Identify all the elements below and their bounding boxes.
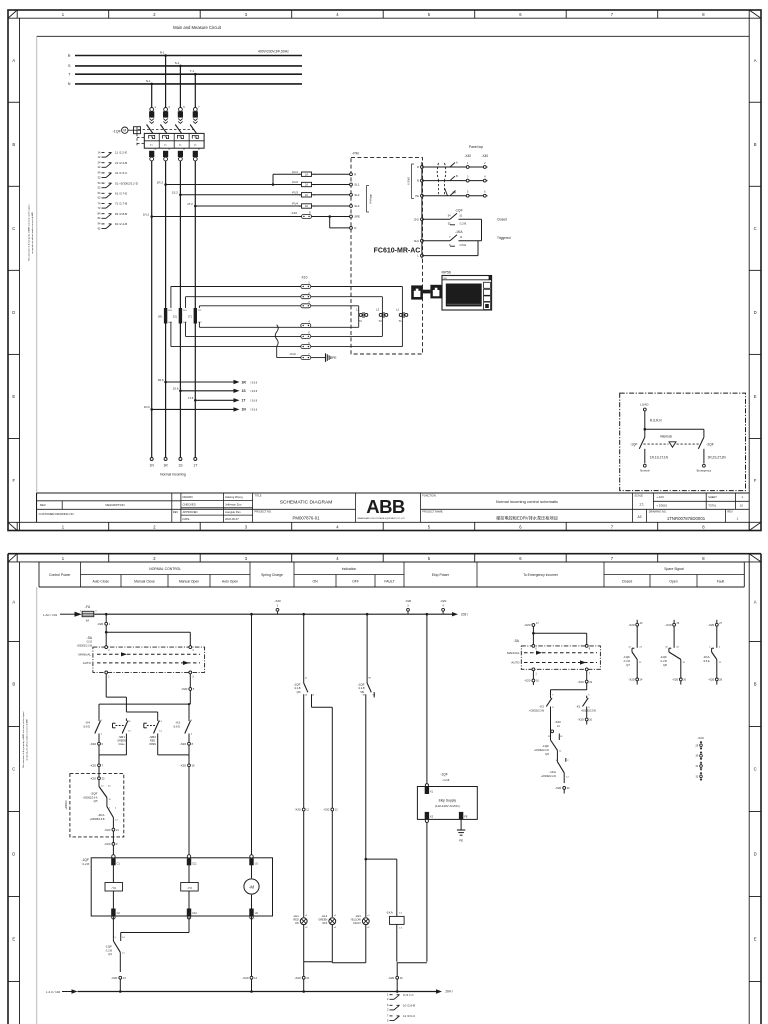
title block title cell (253, 493, 356, 522)
terminal -X20:12 (323, 808, 338, 812)
svg-text:-K2: -K2 (539, 705, 544, 709)
svg-text:MP56: MP56 (442, 270, 451, 274)
wire HL1 column (303, 700, 305, 917)
svg-text:-X20: -X20 (104, 828, 111, 832)
relay contact -K1 (576, 694, 597, 712)
svg-text:Triggered: Triggered (497, 236, 511, 240)
header label Auto Open (222, 579, 238, 583)
svg-text:/1.2-B: /1.2-B (460, 222, 467, 225)
svg-text:-1KA: -1KA (549, 770, 557, 774)
-PM terminal R (350, 172, 357, 176)
svg-text:T3: T3 (358, 319, 362, 323)
header label Ekip Power (432, 573, 450, 577)
svg-text:Normal: Normal (640, 469, 650, 473)
svg-text:ON: ON (312, 579, 318, 583)
svg-text:400V/230V,3Φ,50Hz: 400V/230V,3Φ,50Hz (258, 49, 289, 53)
svg-text:1T.6: 1T.6 (188, 396, 194, 400)
svg-text:FC610-MR-AC: FC610-MR-AC (374, 248, 421, 255)
selector switch -SA (77, 636, 205, 679)
label R,S,R,N (650, 419, 662, 423)
svg-text:DATE: DATE (183, 517, 190, 521)
bus S (68, 64, 302, 68)
display connector plug 2 (430, 285, 441, 299)
terminal -X20:15 (294, 962, 309, 993)
svg-text:/1.2-B: /1.2-B (106, 949, 113, 952)
svg-text:/ 3.6.6: / 3.6.6 (250, 399, 258, 403)
LOAD terminal (640, 403, 649, 430)
breaker -1QF pole blades (147, 125, 197, 134)
svg-text:+ A2X: + A2X (656, 495, 664, 499)
svg-text:AUTO: AUTO (83, 661, 92, 665)
svg-text:Fault: Fault (717, 579, 725, 583)
svg-text:-1QF: -1QF (542, 744, 549, 748)
svg-text:D: D (12, 310, 15, 315)
svg-text:-K1: -K1 (576, 705, 581, 709)
page 2 inner margin line (36, 587, 38, 1024)
terminal -X20:1 (97, 614, 111, 626)
breaker aux changeover -1QF (emergency) (534, 731, 563, 756)
fuse -FU4 (292, 202, 316, 209)
svg-text:-SA: -SA (514, 639, 520, 643)
breaker aux changeover -1QF Q/9 (293, 614, 332, 712)
node 1N.6 (144, 405, 153, 411)
svg-text:-X20: -X20 (708, 623, 715, 627)
breaker -1QF upper plug contact pole 3 (178, 105, 185, 123)
svg-text:1N: 1N (150, 464, 155, 468)
terminal -X20:11 (294, 808, 309, 812)
svg-text:1N.2: 1N.2 (143, 212, 150, 216)
svg-text:-1QF: -1QF (623, 655, 630, 659)
node 1T.2 (187, 202, 196, 208)
svg-text:-PM: -PM (352, 152, 359, 156)
svg-text:Ekip Power: Ekip Power (432, 573, 450, 577)
-1QF box top pin C1 (111, 855, 120, 866)
svg-text:51 +D3002/2.2-D: 51 +D3002/2.2-D (115, 181, 139, 185)
wire branch to -FU1 (272, 174, 351, 186)
-1QF closed-signal contact (422, 208, 507, 240)
label Normal Incoming (160, 473, 186, 477)
svg-text:Auto Open: Auto Open (222, 579, 238, 583)
bus label 400V/230V,3P,50Hz (258, 49, 289, 53)
header label Spare Signal (664, 567, 684, 571)
svg-text:1R: 1R (242, 380, 247, 384)
svg-text:C: C (12, 226, 15, 231)
header label Fault (717, 579, 725, 583)
wire branch K2/K1 (551, 690, 587, 696)
svg-text:Main and Measure Circuit: Main and Measure Circuit (173, 25, 222, 30)
svg-text:-1KA: -1KA (703, 655, 711, 659)
spare contact -1QF Q/7 (closed) (623, 620, 643, 685)
terminal -X20:7 (90, 755, 104, 774)
-PM terminal R (417, 165, 423, 169)
breaker operating unit -1QF box (81, 858, 272, 916)
outgoing terminal 1N (150, 458, 155, 468)
node bus S51 (366, 613, 369, 616)
svg-text:MANUAL: MANUAL (78, 652, 91, 656)
svg-text:Q/1: Q/1 (108, 953, 113, 956)
svg-text:/1.2-B: /1.2-B (358, 687, 365, 690)
title block sheet cell (706, 493, 749, 509)
arrow 204 (436, 989, 453, 993)
svg-text:-FU2: -FU2 (292, 180, 299, 184)
title underline (37, 35, 749, 37)
svg-text:Normal Incoming: Normal Incoming (160, 473, 186, 477)
svg-text:Auto Close: Auto Close (92, 579, 109, 583)
svg-text:+D3002/2.6-A: +D3002/2.6-A (83, 796, 98, 799)
header label FAULT (384, 579, 394, 583)
svg-text:+D3002/2.5-B: +D3002/2.5-B (581, 709, 596, 712)
-PM CT input L2/T2 (376, 308, 388, 323)
-PM terminal B (417, 179, 423, 183)
title block outline (37, 493, 750, 522)
svg-text:C12: C12 (192, 912, 197, 915)
page 2 border frame with grid references (8, 554, 761, 1024)
svg-text:Closed: Closed (622, 579, 633, 583)
svg-text:Panel top: Panel top (469, 145, 483, 149)
svg-text:81 /2.8-B: 81 /2.8-B (115, 212, 127, 216)
indicator lamp -HL1 (red, ON) (293, 914, 308, 929)
svg-text:CH2: CH2 (414, 217, 420, 221)
svg-text:LOAD: LOAD (640, 403, 649, 407)
wire/arrow 1S (180, 389, 257, 394)
display connector plug 1 (411, 285, 423, 299)
svg-text:CHECKED: CHECKED (183, 502, 196, 506)
title block function cell (421, 493, 559, 522)
svg-text:-K3: -K3 (175, 720, 180, 724)
svg-text:To Emergency incomer: To Emergency incomer (523, 573, 559, 577)
terminal -X10:8 (291, 211, 312, 219)
svg-text:1N: 1N (242, 408, 247, 412)
outgoing terminal 1S (178, 458, 183, 468)
svg-text:T1: T1 (398, 319, 402, 323)
wire 1S down to CT (179, 195, 181, 459)
svg-text:R,S,R,N: R,S,R,N (650, 419, 662, 423)
twisted-wire mark (275, 325, 278, 347)
-PM CT input L1/T1 (396, 308, 408, 323)
+D3002 interlock box (dashed) (64, 774, 124, 837)
svg-text:REV: REV (173, 511, 178, 514)
fuse -FU1 (292, 170, 316, 177)
-1QF auxiliary contact 51 cross-reference (98, 181, 139, 190)
svg-text:-1QF: -1QF (81, 858, 89, 862)
breaker -1QF upper plug contact pole 1 (149, 105, 156, 123)
terminal -X20:14 (242, 976, 257, 993)
HMI display MP56 (442, 270, 492, 310)
node N.1 (146, 79, 153, 85)
wire to S51 contact (0, 0, 1, 1)
lamp collector wires (304, 925, 427, 963)
svg-text:-HL1: -HL1 (293, 914, 299, 918)
svg-text:T-1: T-1 (190, 69, 195, 73)
wire to Q9 contact (0, 0, 1, 1)
svg-text:-1QF: -1QF (112, 129, 121, 133)
svg-text:F: F (12, 478, 15, 483)
svg-text:-X10: -X10 (301, 275, 308, 279)
svg-text:This document is the property: This document is the property of ABB and… (28, 204, 31, 261)
spring charge motor feed (250, 613, 253, 858)
svg-text:-2QF: -2QF (706, 443, 714, 447)
spare contact -1KA (fault) (703, 620, 723, 685)
svg-text:-X20: -X20 (577, 680, 584, 684)
svg-text:X-SMS: X-SMS (408, 177, 411, 185)
svg-text:Q/8: Q/8 (663, 664, 668, 667)
svg-text:or reproduced without written: or reproduced without written consent of… (25, 719, 28, 761)
svg-text:Open: Open (669, 579, 677, 583)
contact B on B row (450, 175, 458, 181)
svg-text:B: B (417, 179, 419, 183)
manual feed wire (106, 674, 158, 719)
wire/arrow 1R (166, 380, 258, 385)
opening coil -YO (181, 865, 199, 909)
node bus ekip (426, 613, 429, 616)
header label Indication (342, 567, 357, 571)
terminal -X20:18 (180, 755, 195, 858)
svg-text:A3: A3 (638, 515, 642, 519)
terminal -X20:19 (577, 671, 592, 690)
-1QF box bottom pin U2 (249, 909, 258, 920)
push button -SB1 (green close) (113, 718, 132, 746)
svg-text:REV: REV (40, 503, 46, 507)
svg-text:/3.6-D: /3.6-D (83, 726, 90, 729)
terminal -X10:7 (289, 352, 311, 360)
arrow 203 (452, 612, 468, 616)
-PM terminal CH2 (414, 217, 424, 221)
svg-text:-X20: -X20 (708, 678, 715, 682)
svg-text:Ekip Supply: Ekip Supply (439, 799, 457, 803)
-1QF auxiliary contact 71 cross-reference (98, 201, 128, 210)
svg-text:-SA: -SA (87, 636, 93, 640)
svg-text:/3.10: /3.10 (86, 641, 92, 644)
bus R (68, 54, 302, 58)
svg-text:Spare Signal: Spare Signal (664, 567, 684, 571)
-1QF auxiliary contact 31 cross-reference (98, 171, 129, 180)
svg-text:2S1: 2S1 (173, 316, 178, 319)
svg-text:-X20: -X20 (665, 623, 672, 627)
svg-text:S-1: S-1 (175, 61, 180, 65)
svg-text:-X20: -X20 (274, 599, 281, 603)
svg-text:B: B (12, 142, 15, 147)
svg-text:D: D (12, 852, 15, 857)
svg-text:-X20: -X20 (697, 736, 704, 740)
breaker -1QF lower plug contact pole 2 (163, 147, 170, 161)
svg-text:1S.6: 1S.6 (173, 387, 179, 391)
wire branch to N terminal (328, 215, 351, 228)
auto feed wire (99, 703, 190, 718)
Normal terminal (640, 464, 650, 472)
wire 1N to -PM (152, 216, 351, 218)
title block rev/description table (37, 493, 750, 522)
svg-text:2A: 2A (305, 194, 308, 197)
-1QF auxiliary contact 81 cross-reference (98, 212, 128, 221)
svg-text:-1KA: -1KA (386, 911, 394, 915)
breaker -1QF main box (144, 133, 204, 148)
terminal -X10:3 (301, 300, 311, 308)
breaker -1QF lower plug contact pole 1 (149, 147, 156, 161)
relay contact -K2 (529, 694, 554, 712)
-PM terminal SPE (350, 215, 360, 219)
svg-text:-1QF: -1QF (630, 443, 638, 447)
svg-text:+D3008/2.6-B: +D3008/2.6-B (90, 818, 105, 821)
svg-text:-YC: -YC (111, 886, 117, 890)
svg-text:PE: PE (459, 838, 463, 842)
terminal -X20:8 (180, 736, 194, 755)
node S.1 (175, 61, 182, 67)
svg-text:A: A (12, 58, 15, 63)
svg-text:CH1: CH1 (414, 239, 420, 243)
contact A on R row (450, 162, 458, 168)
label 2R,2S,2T,2N (708, 456, 727, 460)
fuse -FU3 (292, 190, 316, 197)
svg-text:L3: L3 (356, 308, 360, 312)
wire pole S down (179, 161, 181, 195)
interlock contact -2QF (83, 784, 112, 805)
svg-text:APPROVED: APPROVED (183, 510, 198, 514)
svg-text:-K4: -K4 (85, 720, 90, 724)
svg-text:REV.: REV. (727, 510, 733, 514)
svg-text:-1QF: -1QF (357, 682, 364, 686)
svg-text:PE: PE (332, 356, 336, 360)
-PM terminal PE (415, 194, 423, 198)
Ekip power supply (417, 773, 477, 823)
svg-text:-X20: -X20 (90, 742, 97, 746)
svg-text:203 /: 203 / (461, 612, 468, 616)
-1QF box bottom pin C12 (187, 909, 198, 920)
switch -1QF (interlock) (630, 429, 645, 463)
svg-text:71 /2.7-B: 71 /2.7-B (115, 202, 127, 206)
X-SMS bracket (408, 164, 415, 199)
spring charge motor -M (244, 865, 259, 909)
page 2 function header table grid (39, 562, 744, 587)
svg-text:V-M sign: V-M sign (370, 194, 373, 204)
svg-text:YELLOW: YELLOW (350, 919, 361, 922)
ground PE (311, 353, 337, 362)
svg-text:+ D3001: + D3001 (656, 503, 667, 507)
wire L return (422, 241, 478, 256)
svg-text:+D3002/2.2-D: +D3002/2.2-D (534, 749, 549, 752)
-PM right side rail (421, 162, 423, 259)
svg-text:9 /3.7-C: 9 /3.7-C (403, 993, 415, 997)
svg-text:-X20: -X20 (628, 678, 635, 682)
svg-text:FAULT: FAULT (353, 922, 361, 925)
svg-text:-X40: -X40 (481, 154, 488, 158)
svg-text:ABB: ABB (366, 496, 405, 517)
wire K2 down (426, 823, 428, 962)
terminal -X20:16 (388, 924, 403, 992)
svg-text:L.2.0 / 102: L.2.0 / 102 (46, 990, 61, 994)
-PM terminal N (350, 226, 357, 230)
wire S drop (179, 66, 181, 108)
terminal strip -X40 labels (464, 154, 488, 158)
breaker trip linkage (dashed) (137, 130, 194, 146)
svg-text:Manual Open: Manual Open (179, 579, 199, 583)
svg-text:Manual Close: Manual Close (134, 579, 155, 583)
bus N (68, 82, 302, 86)
-PM terminal SL1 (350, 183, 360, 187)
interlock dashed tie (644, 434, 702, 447)
svg-text:Normal incoming control schema: Normal incoming control schematic (496, 499, 558, 504)
control bus L (94, 613, 452, 615)
interlock node (644, 428, 704, 437)
svg-text:91 /2.4-B: 91 /2.4-B (115, 222, 127, 226)
svg-text:1TNR007876D0001: 1TNR007876D0001 (667, 516, 706, 521)
svg-text:-X20: -X20 (524, 623, 531, 627)
svg-text:L.AC / 101: L.AC / 101 (43, 613, 58, 617)
node 1T.6 (188, 396, 197, 402)
svg-text:-1QF: -1QF (660, 655, 667, 659)
svg-text:-1QF: -1QF (440, 773, 448, 777)
svg-text:(110-240V AC/DC): (110-240V AC/DC) (435, 804, 460, 808)
svg-text:10: 10 (740, 503, 744, 507)
svg-text:-X20: -X20 (577, 718, 584, 722)
svg-text:2R,2S,2T,2N: 2R,2S,2T,2N (708, 456, 727, 460)
svg-text:+D3002/2.2-D: +D3002/2.2-D (541, 775, 556, 778)
svg-text:OFF: OFF (352, 579, 359, 583)
node T.1 (190, 69, 197, 75)
svg-text:SHEET: SHEET (708, 495, 717, 499)
svg-text:FUNCTION: FUNCTION (422, 494, 436, 498)
svg-text:1N.6: 1N.6 (144, 405, 150, 409)
node 1N.2 (143, 212, 153, 218)
svg-text:-FU4: -FU4 (292, 202, 299, 206)
svg-text:This document is the property: This document is the property of ABB and… (22, 711, 25, 768)
header label NORMAL CONTROL (149, 567, 181, 571)
svg-text:-HL2: -HL2 (321, 914, 327, 918)
node bus2 13 (119, 990, 122, 993)
wire -X20:1 to -SA (105, 625, 190, 646)
-PM terminal CH1 (414, 239, 424, 243)
svg-text:-X20: -X20 (672, 678, 679, 682)
svg-text:Emergency: Emergency (697, 469, 712, 473)
current transformer CT1 (R) (158, 308, 173, 324)
svg-text:SL2: SL2 (354, 193, 360, 197)
terminal -X20:16 (emergency) (524, 671, 539, 685)
-1QF box top pin C11 (187, 855, 197, 866)
terminal block -X10 label (301, 275, 308, 279)
svg-text:Spring Charge: Spring Charge (261, 573, 283, 577)
svg-text:204 /: 204 / (446, 990, 453, 994)
svg-text:-X20: -X20 (294, 976, 301, 980)
trip relay coil -1KA (386, 911, 404, 962)
svg-text:-X20: -X20 (323, 808, 330, 812)
svg-text:AUTO: AUTO (511, 661, 520, 665)
terminal -X20:5 (181, 674, 195, 704)
wire 1T to -PM (195, 205, 351, 207)
terminal -X20:9 (104, 837, 118, 858)
-1QF auxiliary contact 11 cross-reference (98, 150, 127, 159)
svg-text:/3.6-D: /3.6-D (173, 726, 180, 729)
header label Manual Close (134, 579, 155, 583)
-PM terminal SL3 (350, 204, 360, 208)
svg-text:E: E (754, 394, 757, 399)
closing coil -YC (105, 865, 123, 909)
svg-text:or reproduced without written: or reproduced without written consent of… (31, 212, 34, 254)
svg-text:2R1: 2R1 (158, 316, 163, 319)
svg-text:11 /3.6-C: 11 /3.6-C (403, 1014, 416, 1018)
CT loop middle (S phase secondary) (186, 297, 383, 337)
module label FC610-MR-AC (374, 248, 421, 255)
page 2 side note text (rotated) (22, 711, 28, 768)
svg-text:/ 3.6.6: / 3.6.6 (250, 408, 258, 412)
wire 1N down (151, 217, 153, 460)
svg-text:B: B (754, 682, 757, 687)
svg-text:TOTAL: TOTAL (708, 503, 717, 507)
current transformer CT3 (T) (188, 308, 202, 324)
relay contact -K4 (83, 718, 103, 735)
svg-text:Haitong Zheng: Haitong Zheng (225, 495, 243, 499)
panel-top wire B (422, 176, 488, 182)
terminal -X10:6 (301, 341, 311, 349)
svg-text:DESCRIPTION: DESCRIPTION (105, 503, 124, 507)
